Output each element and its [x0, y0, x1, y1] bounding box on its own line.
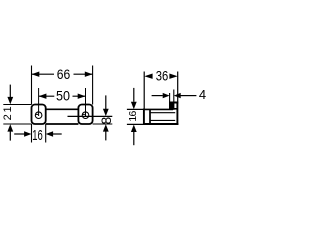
svg-text:50: 50 [56, 88, 70, 104]
svg-text:21: 21 [2, 106, 14, 120]
svg-text:16: 16 [32, 127, 43, 144]
svg-text:8: 8 [98, 116, 114, 124]
svg-text:4: 4 [199, 87, 206, 102]
svg-text:66: 66 [57, 66, 71, 82]
svg-text:36: 36 [156, 68, 169, 84]
svg-text:16: 16 [127, 110, 139, 121]
